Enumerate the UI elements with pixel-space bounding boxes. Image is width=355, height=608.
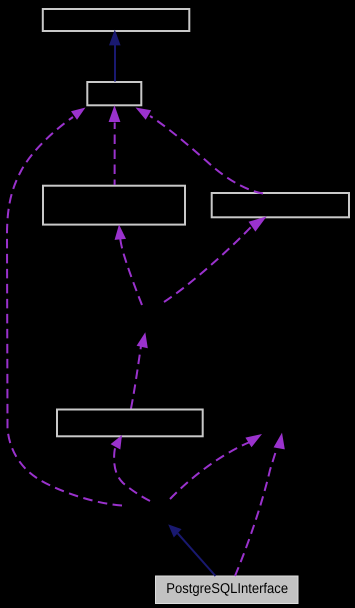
node box1 (top, empty) [43,9,190,31]
dashed edge long left: hidden node P2 around to box2 bottom-left [7,108,122,506]
dashed edge P2 up-right to hidden node A [170,434,262,499]
inheritance arrow PostgreSQLInterface to hidden node P2 (solid blue) [168,524,215,576]
dashed edge P2 to box5 bottom [111,435,150,501]
dashed edge P1 to box3 bottom [115,225,142,306]
node box2 (small, empty) [87,82,141,105]
dashed edge PostgreSQLInterface up right side to hidden node B [235,433,285,576]
node box4 (right mid, empty) [212,193,349,217]
inheritance arrow box2 to box1 (solid blue) [109,30,121,82]
svg-text:PostgreSQLInterface: PostgreSQLInterface [166,581,288,597]
dashed edge box5 top to hidden node P1 [131,332,148,408]
dashed edge box4 to box2 (diagonal) [136,108,264,194]
dashed edge P1 to box4 bottom [164,216,267,302]
dashed edge box3 to box2 (vertical) [109,105,121,185]
node box3 (left mid, empty, two-line) [43,186,185,225]
node box5 (lower left, empty) [57,410,203,437]
node PostgreSQLInterface (filled) [156,576,299,604]
